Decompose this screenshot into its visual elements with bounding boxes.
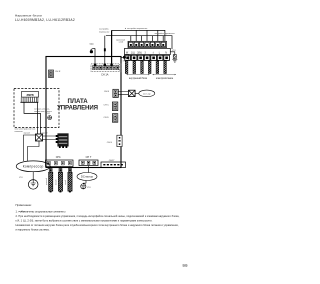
svg-text:Наружные блоки: Наружные блоки	[15, 13, 42, 17]
svg-text:вент-тор: вент-тор	[143, 93, 151, 95]
svg-text:◄ настройка перемычек: ◄ настройка перемычек	[124, 27, 147, 30]
svg-text:LU-H6009MB3A2, LU-H6112RB3A2: LU-H6009MB3A2, LU-H6112RB3A2	[15, 18, 75, 22]
svg-text:СН Е: СН Е	[107, 142, 113, 144]
svg-text:электропитание: электропитание	[156, 78, 174, 80]
svg-text:1. : обозначены опцион: 1. : обозначены опциональные элементы	[16, 210, 66, 214]
svg-text:У/О: У/О	[19, 177, 23, 179]
svg-text:99: 99	[182, 263, 188, 268]
svg-text:синий: синий	[64, 180, 67, 185]
svg-text:У/О: У/О	[123, 61, 127, 63]
svg-text:У/О: У/О	[47, 113, 51, 115]
svg-text:СН С: СН С	[104, 105, 110, 107]
svg-text:СВ D: СВ D	[104, 117, 110, 119]
svg-text:к И, 1 (L), 2 (N), затем быть: к И, 1 (L), 2 (N), затем быть выбрана в …	[16, 219, 153, 223]
svg-text:У/О: У/О	[87, 187, 91, 189]
svg-text:УПРАВЛЕНИЯ: УПРАВЛЕНИЯ	[57, 105, 98, 112]
svg-text:СН Т: СН Т	[86, 156, 92, 159]
svg-text:СН В: СН В	[104, 91, 110, 93]
svg-text:настройка перемычек: настройка перемычек	[154, 32, 174, 35]
svg-text:настройка: настройка	[99, 27, 109, 30]
svg-text:красный: красный	[45, 178, 48, 185]
svg-text:1(L): 1(L)	[131, 52, 135, 54]
svg-text:и наружного блока системы.: и наружного блока системы.	[16, 228, 50, 232]
svg-text:заземление: заземление	[120, 63, 122, 72]
svg-text:СН1: СН1	[56, 156, 62, 159]
svg-text:2(N): 2(N)	[137, 52, 142, 54]
svg-text:СН R: СН R	[55, 71, 61, 73]
svg-text:СН 1А: СН 1А	[101, 73, 109, 76]
svg-text:перемычек: перемычек	[99, 31, 109, 33]
svg-text:Независимо от питания нагрузки: Независимо от питания нагрузки блока рел…	[16, 223, 179, 227]
svg-text:внутренний блок: внутренний блок	[129, 77, 148, 80]
svg-text:черный: черный	[24, 131, 30, 134]
svg-text:Примечание:: Примечание:	[16, 203, 33, 207]
svg-text:белый: белый	[55, 180, 58, 185]
svg-text:DC-мотор: DC-мотор	[81, 175, 94, 179]
svg-text:клапанов: клапанов	[15, 131, 23, 133]
svg-text:У/О: У/О	[90, 44, 94, 46]
svg-text:Компрессор: Компрессор	[23, 165, 44, 169]
svg-text:2. При необходимости в размеще: 2. При необходимости в размещении управл…	[16, 214, 180, 218]
svg-text:ЭМРВ: ЭМРВ	[26, 94, 34, 97]
